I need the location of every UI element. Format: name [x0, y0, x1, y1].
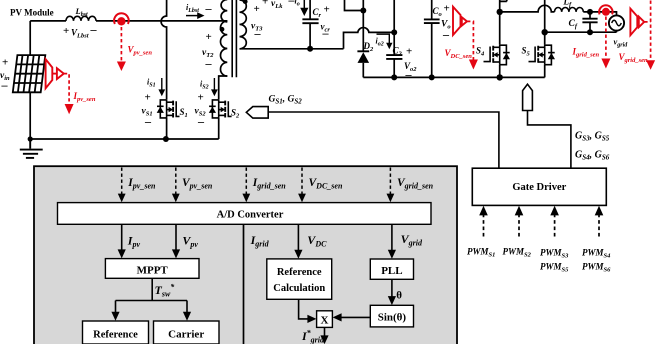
svg-text:+: + [198, 92, 204, 104]
svg-text:+: + [145, 92, 151, 104]
wire: S4 drain from top with nub [500, 0, 507, 44]
svg-text:+: + [444, 3, 450, 15]
wire: left input vertical top [29, 21, 31, 55]
transformer winding vT2 [220, 21, 227, 76]
PV panel [13, 55, 46, 92]
current arrow i_Lbst [186, 15, 199, 17]
capacitor Co [424, 0, 440, 77]
dashed arrow I_pv_sen [64, 74, 69, 102]
wire I_grid down [243, 224, 245, 344]
svg-text:–: – [205, 2, 213, 16]
svg-text:Reference: Reference [277, 267, 322, 278]
svg-text:θ: θ [396, 290, 402, 302]
sensor I_grid_sen (ring+dot on wire) [599, 5, 612, 14]
svg-text:+: + [406, 46, 412, 58]
bottom rail (DC link negative) [363, 76, 544, 78]
mosfet S2 [209, 99, 232, 118]
connector S4/S5 gates (pentagon up) [523, 84, 533, 110]
multiplier X box [317, 311, 333, 328]
svg-text:X: X [321, 315, 329, 327]
arrow V_DC [297, 224, 299, 251]
svg-text:Reference: Reference [93, 330, 138, 341]
wire: resonant link up and over hop to node B [344, 28, 395, 49]
current arrow i_o (top, cut) [303, 0, 305, 8]
probe icon V_grid_sen [630, 9, 644, 36]
dashed arrow V_grid_sen [644, 1, 650, 62]
wire: inverter top rail with hop over S5 [500, 5, 555, 12]
arrow I_pv [121, 224, 123, 250]
wire: left input vertical bottom [29, 92, 31, 139]
arrow V_pv [175, 224, 177, 250]
node: Cf top [587, 9, 593, 15]
wire MPPT to split [116, 278, 188, 300]
svg-text:+: + [63, 25, 69, 37]
node: Co bottom [429, 74, 435, 80]
wire: top rail Lbst to transformer [96, 20, 227, 22]
mosfet S5 [529, 44, 555, 64]
wire: vertical from top into node B [393, 0, 395, 32]
arrow to Reference [115, 301, 117, 315]
node: left bottom corner [28, 136, 33, 141]
inductor Lbst [66, 16, 96, 21]
node: D2 top junction [360, 8, 366, 14]
AC source v_grid [609, 15, 624, 30]
svg-text:+: + [262, 0, 268, 8]
wire: S1 drain vertical with hop over rail [161, 0, 167, 99]
svg-text:PV Module: PV Module [10, 8, 54, 18]
transformer T core [232, 0, 236, 77]
node: S4 source [497, 74, 503, 80]
wire: gate line to gate driver [268, 112, 499, 168]
svg-text:+: + [324, 4, 330, 16]
wire: S5 source down to rail end [544, 65, 546, 78]
svg-text:–: – [1, 78, 9, 92]
svg-text:–: – [197, 115, 205, 129]
capacitor C2 [386, 32, 402, 77]
A/D converter box [58, 203, 432, 225]
svg-text:–: – [442, 28, 450, 42]
controller gray box [34, 166, 457, 344]
current arrow i_S1 [161, 78, 163, 90]
node: Cf bottom [587, 29, 593, 35]
ground [20, 139, 43, 158]
svg-text:–: – [90, 23, 98, 37]
polarity dot primary [220, 27, 225, 32]
MPPT box [105, 259, 199, 279]
svg-text:+: + [2, 57, 8, 69]
wire: S2 source to bottom rail corner [218, 118, 220, 139]
node B: C2 top junction [391, 29, 397, 35]
svg-text:Gate Driver: Gate Driver [512, 182, 566, 193]
Reference box [83, 321, 149, 344]
gate driver box [472, 168, 606, 205]
wire: transformer bottom to S2 drain [219, 76, 228, 99]
connector G_S1/G_S2 (pentagon left) [246, 107, 268, 119]
dashed arrows PWM into gate driver [484, 214, 600, 237]
dashed arrow V_DC_sen [467, 21, 473, 60]
svg-text:–: – [254, 27, 262, 41]
dashed sensor arrows into A/D [122, 168, 391, 195]
svg-text:+: + [206, 31, 212, 43]
probe icon V_DC_sen [453, 7, 467, 35]
wire: S1 source to bottom rail [166, 118, 168, 139]
mosfet S4 [484, 44, 510, 64]
current arrow i_S2 [213, 78, 215, 90]
dashed arrow I_grid_sen [605, 17, 607, 60]
svg-text:PLL: PLL [381, 265, 402, 277]
wire: Lf to grid top [583, 12, 616, 16]
wire: D2 branch vertical from top [362, 0, 364, 51]
current arrow i_o2 hook [377, 34, 390, 44]
node: S5 drain / filter bottom junction [542, 29, 548, 35]
Reference Calculation box [267, 259, 332, 299]
capacitor Cr [302, 0, 318, 49]
node: C2 bottom [391, 74, 397, 80]
svg-text:–: – [144, 115, 152, 129]
dashed arrow V_pv_sen [120, 27, 122, 62]
svg-text:Carrier: Carrier [168, 329, 204, 341]
arrow I*grid down [324, 327, 326, 337]
sensor V_pv_sen (ring+dot on wire) [114, 13, 129, 24]
wire: secondary bottom to Cr junction [240, 48, 344, 50]
arrow to Carrier [186, 301, 188, 315]
svg-text:Sin(θ): Sin(θ) [378, 312, 407, 324]
transformer primary winding vT1 (top, cut) [221, 0, 227, 22]
Sin box [370, 305, 413, 327]
mosfet S1 [157, 99, 180, 118]
capacitor Cf [582, 12, 597, 32]
polarity dot secondary [243, 0, 248, 4]
inductor Lf [555, 7, 584, 11]
wire: pentagon to gate driver [528, 111, 571, 169]
svg-text:MPPT: MPPT [137, 265, 169, 277]
PLL box [370, 259, 413, 279]
svg-text:–: – [405, 68, 413, 82]
wire: filter bottom to grid [545, 31, 617, 33]
svg-text:+: + [254, 3, 260, 15]
arrow V_grid [391, 224, 393, 251]
node: S4 drain / rail junction [497, 9, 503, 15]
wire: top rail from left to Lbst [30, 20, 66, 22]
wire: bottom rail (PV ground) [30, 138, 219, 140]
diode D2 [357, 50, 369, 52]
arrow Sin to X [340, 316, 371, 318]
svg-text:–: – [322, 26, 330, 40]
arrow theta [391, 279, 393, 297]
wire: S4 source down [499, 65, 501, 78]
wire RefCalc to X [299, 299, 310, 319]
wire: S5 drain from top [544, 0, 546, 44]
svg-text:Calculation: Calculation [273, 283, 325, 294]
svg-text:–: – [205, 57, 213, 71]
svg-text:A/D Converter: A/D Converter [217, 210, 284, 221]
node A: Cr bottom junction [307, 46, 313, 52]
node: S1 source on bottom rail [163, 136, 169, 142]
Carrier box [154, 321, 220, 344]
wire: top stub L into D2 node [345, 0, 364, 11]
transformer secondary winding vT3 [240, 0, 247, 49]
probe icon I_pv_sen [46, 59, 64, 88]
